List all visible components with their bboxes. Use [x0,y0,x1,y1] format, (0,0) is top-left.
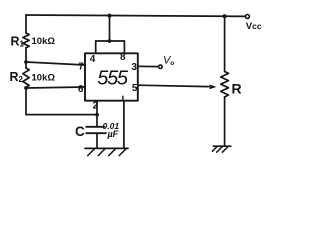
node A (R1/R2/pin7) [24,60,28,64]
wire rail to bracket [109,16,111,41]
svg-text:C: C [75,124,85,139]
wire top rail [26,15,246,16]
resistor R2 [23,68,29,87]
wire R1 to node A [25,48,27,62]
svg-text:2: 2 [93,101,99,112]
node bracket junction [108,39,112,43]
resistor R [221,72,229,97]
wire node A to pin 7 [26,62,85,65]
svg-text:7: 7 [78,61,84,72]
wire node B down and right to cap [26,88,97,115]
wire pin 5 arrow to R [138,85,209,86]
svg-text:4: 4 [90,54,96,65]
ground (right) [214,145,231,147]
wire node A to R2 [25,62,27,68]
svg-text:R: R [232,81,242,97]
svg-text:3: 3 [131,62,137,73]
svg-text:10kΩ: 10kΩ [32,36,56,47]
capacitor C plates [86,126,104,128]
svg-text:Vcc: Vcc [246,21,262,32]
svg-text:555: 555 [97,68,129,90]
wire rail to R [224,16,226,71]
pin 4 stub [95,41,97,53]
wire capacitor to ground [96,133,98,148]
terminal Vo [159,65,163,69]
wire left drop to R1 [25,15,27,33]
terminal Vcc [245,15,249,19]
resistor R1 [23,33,29,48]
wire pin 2 stub [96,101,98,115]
svg-text:10kΩ: 10kΩ [32,73,56,84]
node junction rail-to-R [223,14,227,18]
wire pin 3 output [138,65,159,67]
wire node B to pin 6 [26,87,85,88]
svg-text:µF: µF [107,129,119,139]
svg-text:5: 5 [132,83,138,94]
node junction rail-to-bracket [108,14,112,18]
wire R to ground [224,97,226,146]
ground (wide, cap+pin1) [85,147,128,149]
node B (R2/pin6) [24,86,28,90]
wire pin 1 to ground [123,101,125,149]
svg-text:o: o [170,60,174,67]
pin 8 stub [123,41,125,53]
node C junction (pin2/cap) [95,113,99,117]
wire cap node to capacitor [96,115,98,127]
pin label 1 (tick) [122,96,124,100]
svg-text:8: 8 [120,52,126,63]
svg-text:6: 6 [78,84,84,95]
op-amp U1 555 body [85,53,138,100]
wire bracket pins 4-8 [96,40,125,42]
